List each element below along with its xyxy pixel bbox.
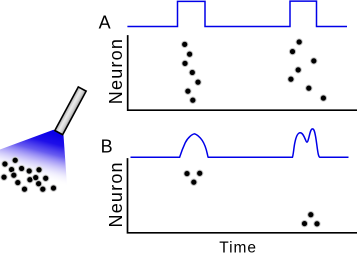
stimulus trace B (smooth bumps) <box>131 129 349 157</box>
axis B <box>128 158 357 233</box>
raster dots A group 2 <box>287 38 327 102</box>
axis A <box>128 35 357 110</box>
svg-text:B: B <box>101 137 113 157</box>
light cone <box>0 130 67 185</box>
illuminated neurons (dot cluster) <box>0 156 57 193</box>
raster dots B group 2 <box>301 211 321 228</box>
svg-text:Neuron: Neuron <box>106 38 126 104</box>
stimulus trace A (square pulses) <box>127 1 347 26</box>
optical fiber <box>55 87 86 135</box>
svg-text:Time: Time <box>219 239 257 256</box>
raster dots A group 1 <box>181 41 202 105</box>
raster dots B group 1 <box>183 169 204 186</box>
svg-text:A: A <box>99 12 111 32</box>
svg-text:Neuron: Neuron <box>106 161 126 227</box>
